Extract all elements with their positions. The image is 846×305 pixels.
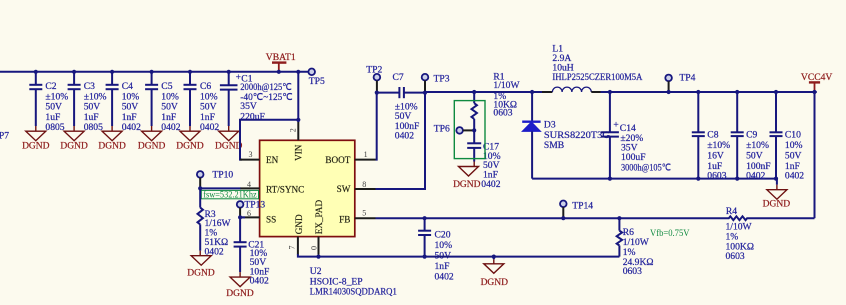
- test point TP13: [237, 200, 266, 218]
- ground DGND (C17): [453, 167, 481, 191]
- svg-text:0: 0: [309, 246, 318, 250]
- wire: VCC riser to R4: [814, 92, 816, 218]
- svg-text:DGND: DGND: [481, 278, 509, 288]
- ground DGND (C3): [60, 131, 88, 151]
- svg-text:SMB: SMB: [544, 140, 564, 151]
- svg-text:TP10: TP10: [212, 170, 233, 181]
- svg-text:C9: C9: [746, 130, 757, 141]
- wire: SW node bus to inductor: [425, 91, 543, 93]
- svg-text:GND: GND: [294, 214, 304, 234]
- svg-text:3000h@105℃: 3000h@105℃: [621, 162, 671, 173]
- power port VCC4V: [801, 72, 833, 94]
- svg-text:1nF: 1nF: [435, 261, 450, 272]
- svg-text:3: 3: [249, 150, 253, 159]
- capacitor C10: [770, 90, 805, 182]
- svg-text:DGND: DGND: [215, 141, 243, 151]
- ground DGND (C4): [98, 131, 126, 151]
- svg-text:DGND: DGND: [453, 180, 481, 190]
- svg-text:10%: 10%: [435, 240, 453, 251]
- svg-text:TP6: TP6: [434, 124, 450, 135]
- svg-text:+: +: [613, 120, 618, 130]
- wire: BOOT riser: [376, 93, 377, 160]
- svg-text:TP3: TP3: [434, 74, 450, 85]
- resistor R1 (snubber): [472, 72, 521, 131]
- wire: output ground run: [532, 178, 777, 180]
- svg-text:SS: SS: [266, 214, 276, 224]
- svg-text:EX_PAD: EX_PAD: [314, 200, 324, 235]
- svg-text:U2: U2: [310, 266, 322, 277]
- svg-text:TP2: TP2: [366, 65, 382, 76]
- diode D3: [522, 90, 610, 179]
- wire: VIN riser from bus to pin 2: [297, 72, 299, 122]
- wire: VBAT input bus: [0, 71, 310, 73]
- test point TP2: [366, 65, 382, 95]
- capacitor C2: [29, 70, 68, 133]
- svg-text:16V: 16V: [707, 150, 724, 161]
- ground DGND (C6): [176, 131, 204, 151]
- wire: TP10 to RT/SYNC pin 4: [200, 187, 240, 189]
- svg-text:LMR14030SQDDARQ1: LMR14030SQDDARQ1: [310, 287, 397, 298]
- svg-text:8: 8: [362, 180, 366, 189]
- svg-text:TP14: TP14: [572, 201, 593, 212]
- wire: EN tie to VIN: [240, 120, 298, 160]
- test point TP5: [308, 69, 325, 88]
- pin 4 RT/SYNC stub: [240, 187, 260, 189]
- svg-text:0402: 0402: [161, 122, 180, 133]
- svg-text:0805: 0805: [45, 122, 64, 133]
- pin 0 EX_PAD stub: [318, 237, 320, 255]
- pin 5 FB stub: [355, 217, 376, 219]
- capacitor C9: [731, 90, 771, 182]
- svg-text:BOOT: BOOT: [325, 155, 350, 165]
- ground DGND (C21): [226, 277, 254, 299]
- capacitor C14 (polarized output): [601, 90, 671, 181]
- pin 8 SW stub: [355, 188, 376, 190]
- ground DGND (R3): [187, 256, 215, 279]
- svg-text:50V: 50V: [746, 150, 763, 161]
- U2 designator labels: [310, 266, 397, 298]
- fsw note (green box): [201, 190, 258, 201]
- test point TP10: [197, 170, 233, 189]
- svg-text:DGND: DGND: [226, 289, 254, 299]
- svg-text:DGND: DGND: [60, 141, 88, 151]
- wire: VCC4V bus after inductor: [601, 91, 817, 93]
- resistor R4 (FB upper): [716, 206, 815, 262]
- capacitor C1 (polarized): [220, 70, 293, 131]
- svg-text:TP4: TP4: [679, 72, 695, 83]
- svg-text:0603: 0603: [623, 266, 642, 277]
- svg-text:0402: 0402: [395, 131, 414, 142]
- svg-text:1/10W: 1/10W: [493, 80, 520, 91]
- svg-text:2: 2: [289, 128, 298, 132]
- svg-text:DGND: DGND: [138, 141, 166, 151]
- svg-text:C8: C8: [707, 130, 718, 141]
- wire: SW riser TP3 down to pin 8: [376, 93, 426, 189]
- ground DGND (output): [763, 179, 791, 210]
- svg-text:7: 7: [288, 246, 297, 250]
- svg-text:0402: 0402: [481, 179, 500, 190]
- svg-text:Vfb=0.75V: Vfb=0.75V: [650, 228, 690, 239]
- svg-text:TP13: TP13: [244, 200, 265, 211]
- svg-text:EN: EN: [266, 155, 279, 165]
- svg-text:0603: 0603: [493, 107, 512, 118]
- svg-text:RT/SYNC: RT/SYNC: [266, 184, 304, 194]
- test point TP14: [560, 201, 593, 221]
- svg-text:VBAT1: VBAT1: [266, 52, 296, 63]
- capacitor C20 (feedforward): [418, 216, 454, 282]
- pin 7 GND stub: [297, 237, 299, 255]
- pin 6 SS stub: [240, 216, 260, 218]
- svg-text:IHLP2525CZER100M5A: IHLP2525CZER100M5A: [552, 72, 642, 83]
- svg-text:TP5: TP5: [309, 76, 325, 87]
- pin 3 EN stub: [240, 159, 260, 161]
- wire: IC ground run: [298, 254, 620, 257]
- wire: TP13 to SS pin 6: [240, 216, 245, 218]
- svg-text:C20: C20: [435, 230, 451, 241]
- wire: FB net from pin 5: [376, 217, 717, 219]
- capacitor C6: [184, 70, 220, 133]
- capacitor C3: [68, 70, 107, 133]
- svg-text:0603: 0603: [707, 171, 726, 182]
- capacitor C7 (bootstrap): [377, 72, 425, 142]
- svg-text:C7: C7: [393, 72, 404, 83]
- svg-text:0402: 0402: [435, 271, 454, 282]
- test point TP6: [434, 124, 477, 135]
- svg-text:DGND: DGND: [176, 141, 204, 151]
- svg-text:0603: 0603: [726, 251, 745, 262]
- capacitor C17 (snubber): [467, 130, 500, 189]
- ground DGND (IC): [481, 255, 509, 289]
- svg-text:DGND: DGND: [98, 141, 126, 151]
- svg-text:0402: 0402: [200, 122, 219, 133]
- svg-text:0805: 0805: [84, 122, 103, 133]
- resistor R6 (FB lower): [617, 216, 654, 277]
- capacitor C4: [106, 70, 141, 133]
- svg-text:C10: C10: [785, 130, 801, 141]
- svg-text:R4: R4: [726, 206, 737, 217]
- ground DGND (C5): [138, 131, 166, 151]
- svg-text:0402: 0402: [250, 275, 269, 286]
- capacitor C5: [145, 70, 181, 133]
- green highlight box around snubber: [454, 101, 485, 159]
- svg-text:DGND: DGND: [22, 141, 50, 151]
- svg-text:SW: SW: [337, 184, 351, 194]
- resistor R3: [198, 188, 232, 257]
- ground DGND (C2): [22, 131, 50, 151]
- test point TP4: [665, 72, 695, 94]
- svg-text:0402: 0402: [746, 171, 765, 182]
- svg-text:DGND: DGND: [763, 200, 791, 210]
- inductor L1: [542, 43, 642, 92]
- svg-text:1: 1: [364, 150, 368, 159]
- power port VBAT1: [266, 52, 296, 74]
- test point TP3: [422, 74, 450, 95]
- svg-text:0402: 0402: [785, 171, 804, 182]
- svg-text:TP7: TP7: [0, 131, 9, 142]
- svg-text:50V: 50V: [785, 150, 802, 161]
- svg-text:FB: FB: [339, 214, 350, 224]
- regulator U2 body LMR14030SQDDARQ1: [260, 140, 355, 236]
- capacitor C8: [692, 90, 730, 182]
- svg-text:5: 5: [362, 209, 366, 218]
- ground DGND (C1): [215, 131, 243, 151]
- svg-text:0402: 0402: [122, 122, 141, 133]
- pin 2 VIN stub: [297, 122, 299, 140]
- pin 1 BOOT stub: [355, 159, 376, 161]
- svg-text:4: 4: [247, 180, 251, 189]
- svg-text:DGND: DGND: [187, 269, 215, 279]
- capacitor C21: [234, 217, 270, 286]
- svg-text:VIN: VIN: [294, 144, 304, 161]
